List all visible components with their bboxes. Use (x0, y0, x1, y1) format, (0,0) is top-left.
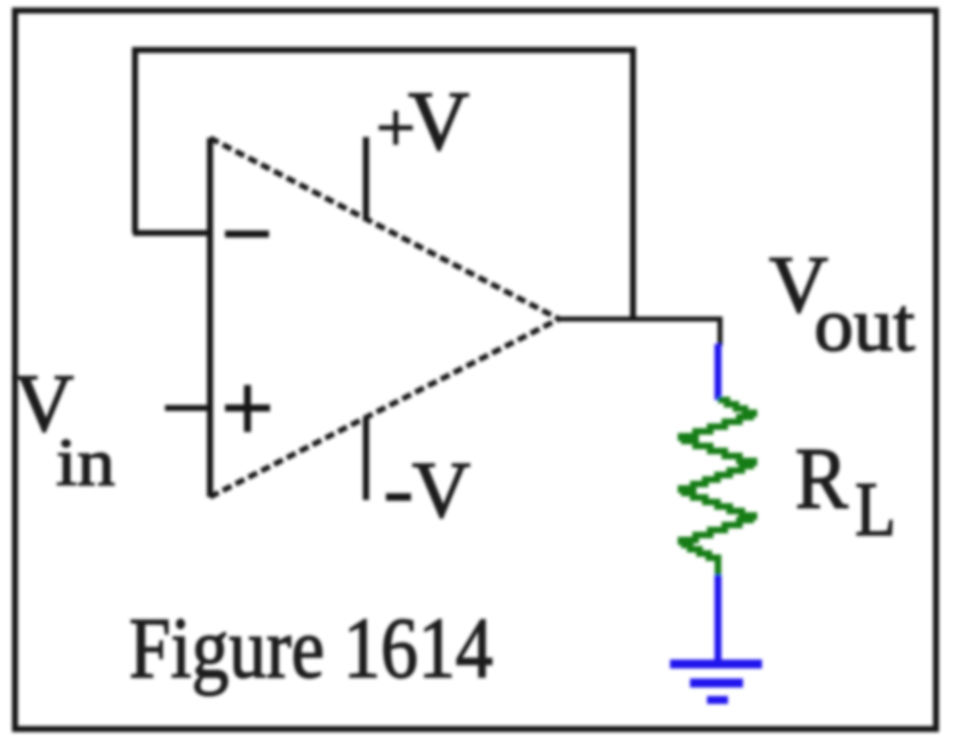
pin +V (363, 137, 369, 219)
ground symbol (670, 664, 762, 700)
resistor RL (681, 400, 754, 577)
wire inverting input (133, 230, 209, 236)
label Vin (14, 357, 115, 500)
svg-text:R: R (795, 431, 848, 528)
svg-text:L: L (855, 466, 896, 552)
wire output (559, 319, 720, 346)
wire blue to ground (715, 575, 722, 663)
minus symbol (inverting input) (225, 231, 269, 238)
plus symbol (non-inverting input) (225, 385, 270, 432)
svg-text:V: V (408, 74, 469, 168)
label -V (386, 445, 471, 535)
svg-text:V: V (412, 445, 471, 535)
op-amp U1 (210, 138, 559, 497)
wire blue output drop (715, 344, 722, 400)
svg-text:in: in (56, 424, 115, 500)
pin -V (363, 418, 369, 500)
label +V (376, 74, 469, 168)
svg-text:out: out (814, 281, 915, 367)
label RL (795, 431, 896, 552)
wire input Vin (165, 405, 209, 411)
label Vout (769, 239, 915, 367)
svg-text:Figure 1614: Figure 1614 (129, 599, 493, 696)
wire feedback loop (135, 50, 633, 319)
